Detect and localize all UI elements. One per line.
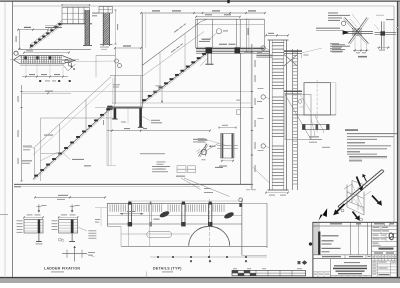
svg-text:LADDER FIXATION: LADDER FIXATION xyxy=(44,267,80,271)
stair plan inner lines xyxy=(20,56,62,58)
top w label xyxy=(23,146,32,147)
bracing right label xyxy=(386,19,394,20)
stair plan lower parallel xyxy=(20,64,62,66)
title right small texts xyxy=(373,227,380,228)
main view left vertical line xyxy=(141,14,143,108)
ladder top cap xyxy=(268,39,289,41)
small stair dim line upper xyxy=(18,29,48,31)
stair plan dim below xyxy=(22,76,68,78)
det1 text xyxy=(193,139,207,140)
bracing dim below xyxy=(354,38,356,53)
svg-text:DETAILS (TYP): DETAILS (TYP) xyxy=(153,267,182,271)
mid detail bottom ticks xyxy=(221,160,235,162)
platform beam xyxy=(196,48,265,49)
landing beam xyxy=(108,107,143,109)
ladder top connection beam xyxy=(284,50,302,51)
lower flight handrail xyxy=(33,77,111,149)
bracing labels top-left xyxy=(328,12,338,13)
iso arrow right xyxy=(372,196,379,204)
small brace text below xyxy=(202,158,206,161)
landing floor line xyxy=(112,102,251,104)
tall right dim line xyxy=(250,44,252,190)
platform railing mid rail xyxy=(196,23,265,25)
bplan bottom dim xyxy=(150,256,267,258)
small brace detail diagonal xyxy=(199,144,208,157)
lower flight stringer xyxy=(33,108,111,180)
small stair labels right xyxy=(92,13,99,14)
bplan lower lines xyxy=(121,233,190,235)
detail L1 T-symbol xyxy=(38,204,40,212)
ladder rungs upper xyxy=(272,42,284,44)
bracing balloon xyxy=(341,21,345,25)
iso frame members xyxy=(346,185,348,208)
bracing left arrow xyxy=(343,30,349,35)
platform stub leaders xyxy=(200,58,208,66)
landing post A xyxy=(114,109,117,119)
bplan up text xyxy=(154,219,160,220)
small stair handrail xyxy=(30,21,63,46)
upper flight handrail xyxy=(142,22,201,66)
bplan posts xyxy=(128,202,131,205)
ground EL text xyxy=(14,186,21,187)
bplan arch xyxy=(189,226,230,246)
ladder top dim xyxy=(266,34,288,36)
wall section top grid xyxy=(98,6,100,13)
detail L2 leader texts xyxy=(78,227,87,231)
wall section base xyxy=(100,44,113,46)
small stair left vert dim xyxy=(19,30,21,49)
small brace arrow label xyxy=(209,145,211,147)
notes lines xyxy=(347,133,397,134)
stair plan centerline xyxy=(10,59,79,61)
stair plan right tip circles xyxy=(65,59,68,62)
bracing horizontal member xyxy=(344,30,374,32)
fold mark right top xyxy=(376,14,384,16)
title bottom left cells xyxy=(330,259,332,278)
title block outline xyxy=(313,222,397,277)
mid detail dim arrows xyxy=(219,127,236,129)
detail L2 dim top xyxy=(59,216,78,218)
lower flight midrail xyxy=(33,83,111,155)
frame top line xyxy=(13,5,395,7)
main view second dim xyxy=(196,16,240,18)
bplan rounded box xyxy=(147,232,172,238)
platform connector plate left xyxy=(206,48,213,54)
landing rail posts xyxy=(114,76,116,107)
stair underside dim xyxy=(161,89,163,103)
detail L2 left texts xyxy=(52,219,58,222)
left boundary steps xyxy=(115,47,141,49)
platform right support column xyxy=(240,54,242,185)
railing right vert dim xyxy=(246,19,248,51)
bracing diagonal A xyxy=(349,17,368,43)
second vertical near main xyxy=(145,14,147,48)
bent plate label right xyxy=(72,159,84,160)
iso main tube xyxy=(338,170,382,207)
bplan leaf shapes xyxy=(159,210,170,219)
detail L1 box xyxy=(24,220,43,234)
upper flight stringer xyxy=(142,53,207,103)
bplan end right xyxy=(241,200,243,256)
det text mid xyxy=(215,167,223,168)
sheet right edge xyxy=(397,2,399,279)
ladder right text block xyxy=(332,44,345,45)
title header row xyxy=(313,225,397,227)
ground line xyxy=(14,183,252,185)
landing extension verticals xyxy=(106,109,108,166)
upper flight rail posts xyxy=(159,52,161,89)
bplan centerline xyxy=(209,199,211,263)
mid detail balloon xyxy=(201,149,207,155)
scale bar xyxy=(232,270,306,275)
landing post leaders text xyxy=(142,116,151,121)
main view top dim chain xyxy=(141,12,265,14)
ladder rungs middle xyxy=(272,96,284,98)
ladder bottom base xyxy=(268,189,289,191)
ladder column right xyxy=(292,49,294,190)
right detail texts below xyxy=(309,136,319,137)
plan dim dark squares row xyxy=(39,80,41,82)
stair plan balloon xyxy=(14,51,18,55)
title company name block xyxy=(344,262,360,263)
iso cursor arrow xyxy=(318,208,327,221)
circle post blob xyxy=(239,203,242,207)
bplan rung hatch xyxy=(109,204,111,211)
stringer label MC8 upper xyxy=(174,23,186,32)
plan ext verticals xyxy=(25,64,27,77)
platform connector plate right xyxy=(235,48,241,54)
bplan top line xyxy=(107,202,242,204)
bplan top circle xyxy=(239,198,243,202)
title scale cells right xyxy=(377,261,379,278)
small brace texts above xyxy=(198,137,205,140)
left vertical dim xyxy=(21,85,23,181)
left dim texts xyxy=(18,96,19,102)
platform column stub xyxy=(207,54,209,64)
right detail beam strip xyxy=(302,124,329,129)
wall section hatched band xyxy=(103,13,109,45)
level line upper xyxy=(22,91,252,93)
stamp marks left of title block xyxy=(298,261,301,264)
ladder small dim mid xyxy=(301,54,303,59)
right detail centerline xyxy=(316,80,318,134)
sheet right shadow xyxy=(398,2,400,279)
stair plan posts xyxy=(24,56,26,59)
stair plan outline xyxy=(14,56,76,64)
sheet bottom shadow xyxy=(0,279,400,283)
wall section dim right xyxy=(115,10,117,44)
bracing det label xyxy=(358,56,367,57)
title left dot xyxy=(309,243,312,246)
detail L1 left texts xyxy=(17,219,23,222)
landing left labels xyxy=(113,83,120,86)
stringer label MC8 lower xyxy=(171,43,183,52)
platform railing top rail xyxy=(196,18,265,20)
iso caption underlined xyxy=(349,156,387,157)
long text line mid right xyxy=(140,153,165,154)
title record right cells xyxy=(374,255,376,261)
right beam step xyxy=(257,54,273,56)
small stair top platform grid xyxy=(61,7,63,23)
mid detail section xyxy=(221,134,235,159)
title right section rows xyxy=(372,229,398,231)
right detail right line xyxy=(335,83,337,115)
frame left line xyxy=(12,2,14,278)
bracing right dim xyxy=(377,47,390,49)
detail L2 box xyxy=(59,220,78,234)
ladder bracket box xyxy=(285,95,311,140)
fold mark top xyxy=(227,0,229,3)
detail L1 column below xyxy=(38,233,40,241)
title stamp blob xyxy=(389,233,395,241)
label near notes left xyxy=(322,147,330,148)
iso arrow small up xyxy=(364,176,367,182)
title big number xyxy=(379,248,394,250)
ladder bottom dim xyxy=(266,192,288,194)
right detail rectangle xyxy=(304,83,331,115)
detail L2 column below xyxy=(71,233,73,241)
frame right line xyxy=(393,6,395,222)
detail L3 cross xyxy=(62,253,87,255)
iso arrow bottom xyxy=(353,212,358,219)
sheet top edge xyxy=(0,0,400,2)
small stair elevation stringer xyxy=(30,24,63,49)
detail L2 T-symbol xyxy=(71,204,73,212)
ladder leader from left xyxy=(253,167,270,183)
title record band xyxy=(313,254,397,256)
detail L1 dim top xyxy=(24,216,43,218)
small stair mid landing xyxy=(45,27,62,29)
lower flight rail posts xyxy=(34,148,36,178)
bracing diagonal B xyxy=(345,17,369,43)
bplan right bottom step xyxy=(242,254,267,256)
wall box bottom bar xyxy=(41,153,60,155)
bent plate labels xyxy=(44,135,53,136)
bplan dots lower xyxy=(190,260,192,262)
railing text row xyxy=(219,44,227,45)
iso small circles xyxy=(341,209,344,212)
small stair top dim xyxy=(62,4,90,6)
small brace detail vertical xyxy=(205,144,207,157)
tall dim rotated texts xyxy=(255,60,256,67)
bplan left ext xyxy=(95,207,107,209)
bplan mid line xyxy=(107,215,242,217)
sheet left faint edge xyxy=(4,2,6,278)
wall outline behind stair xyxy=(41,117,115,119)
landing left verticals xyxy=(114,48,116,104)
ladder rungs lower xyxy=(272,145,284,147)
bracing right sub-detail xyxy=(380,21,382,49)
title revision dark bar xyxy=(318,232,320,255)
upper small dim xyxy=(22,92,72,94)
small stair floor line xyxy=(18,48,91,50)
platform railing posts xyxy=(195,19,197,48)
small stair wall column hatched xyxy=(85,10,90,45)
text block lower right of landing xyxy=(157,161,166,164)
ladder mid connection beam xyxy=(284,91,302,92)
stair plan tail xyxy=(62,64,68,71)
iso thin diagonals xyxy=(352,184,364,211)
right detail bottom line xyxy=(293,114,336,116)
mid detail label xyxy=(219,166,227,167)
notes header xyxy=(345,129,358,131)
right detail leaders xyxy=(315,115,324,133)
bracing labels bottom-left xyxy=(330,43,339,44)
ground dim line xyxy=(35,196,105,198)
ladder rails xyxy=(269,40,271,190)
landing beam end blob xyxy=(107,106,112,110)
landing post B xyxy=(139,109,142,128)
bplan dim arrows inside xyxy=(120,213,144,215)
right detail dims left xyxy=(300,98,305,100)
bplan band bottom xyxy=(107,223,242,225)
fold mark bottom xyxy=(146,271,148,277)
railing label DET4 xyxy=(216,29,221,34)
sheet bottom edge xyxy=(0,277,400,279)
iso arrow down-right top xyxy=(357,177,361,187)
ladder balloons left xyxy=(261,46,265,50)
stair plan rung hatch xyxy=(21,56,23,63)
iso arrow to lower-left xyxy=(337,204,345,212)
bolt table xyxy=(177,166,186,169)
small stair bottom dim xyxy=(24,52,69,54)
landing dim line xyxy=(107,130,210,132)
title revision texts xyxy=(322,235,339,236)
fold mark left xyxy=(0,214,8,216)
footing leader V xyxy=(176,176,185,177)
bracing left label xyxy=(316,28,340,29)
landing level line xyxy=(95,107,251,109)
small brace gusset ticks xyxy=(198,151,202,154)
landing rail xyxy=(110,75,142,77)
detail L2 oval xyxy=(58,238,61,241)
upper flight mid rail xyxy=(142,32,204,77)
plan tip balloons xyxy=(115,59,119,63)
ladder X brace xyxy=(284,55,297,67)
post small dims xyxy=(103,120,104,125)
